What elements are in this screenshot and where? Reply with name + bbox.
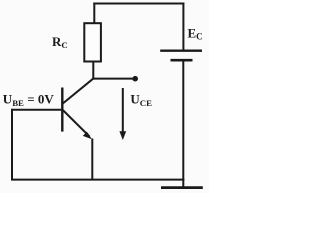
wire battery bottom vertical — [182, 60, 184, 188]
UCE arrowhead — [119, 131, 126, 140]
wire collector node horizontal to dot — [92, 78, 135, 80]
svg-text:UBE = 0V: UBE = 0V — [3, 91, 55, 108]
wire bottom rail — [11, 179, 184, 181]
transistor emitter arrowhead — [83, 132, 92, 140]
wire top rail horizontal — [93, 3, 184, 5]
wire right vertical (top rail to battery +) — [182, 3, 184, 51]
transistor emitter diagonal — [63, 110, 90, 137]
UCE arrow shaft — [122, 88, 124, 133]
wire left vertical — [11, 109, 13, 180]
wire resistor bottom to collector node — [92, 62, 94, 80]
bottom terminal bar — [161, 186, 203, 189]
junction dot collector node — [132, 76, 138, 82]
wire top-left vertical (resistor top to top rail) — [93, 3, 95, 24]
battery EC positive long plate — [160, 50, 202, 52]
transistor collector diagonal — [63, 78, 94, 103]
transistor base bar — [61, 88, 63, 132]
wire base horizontal — [11, 109, 61, 111]
wire emitter vertical — [91, 139, 93, 181]
resistor RC body — [84, 23, 101, 61]
battery EC negative short plate — [171, 59, 193, 62]
